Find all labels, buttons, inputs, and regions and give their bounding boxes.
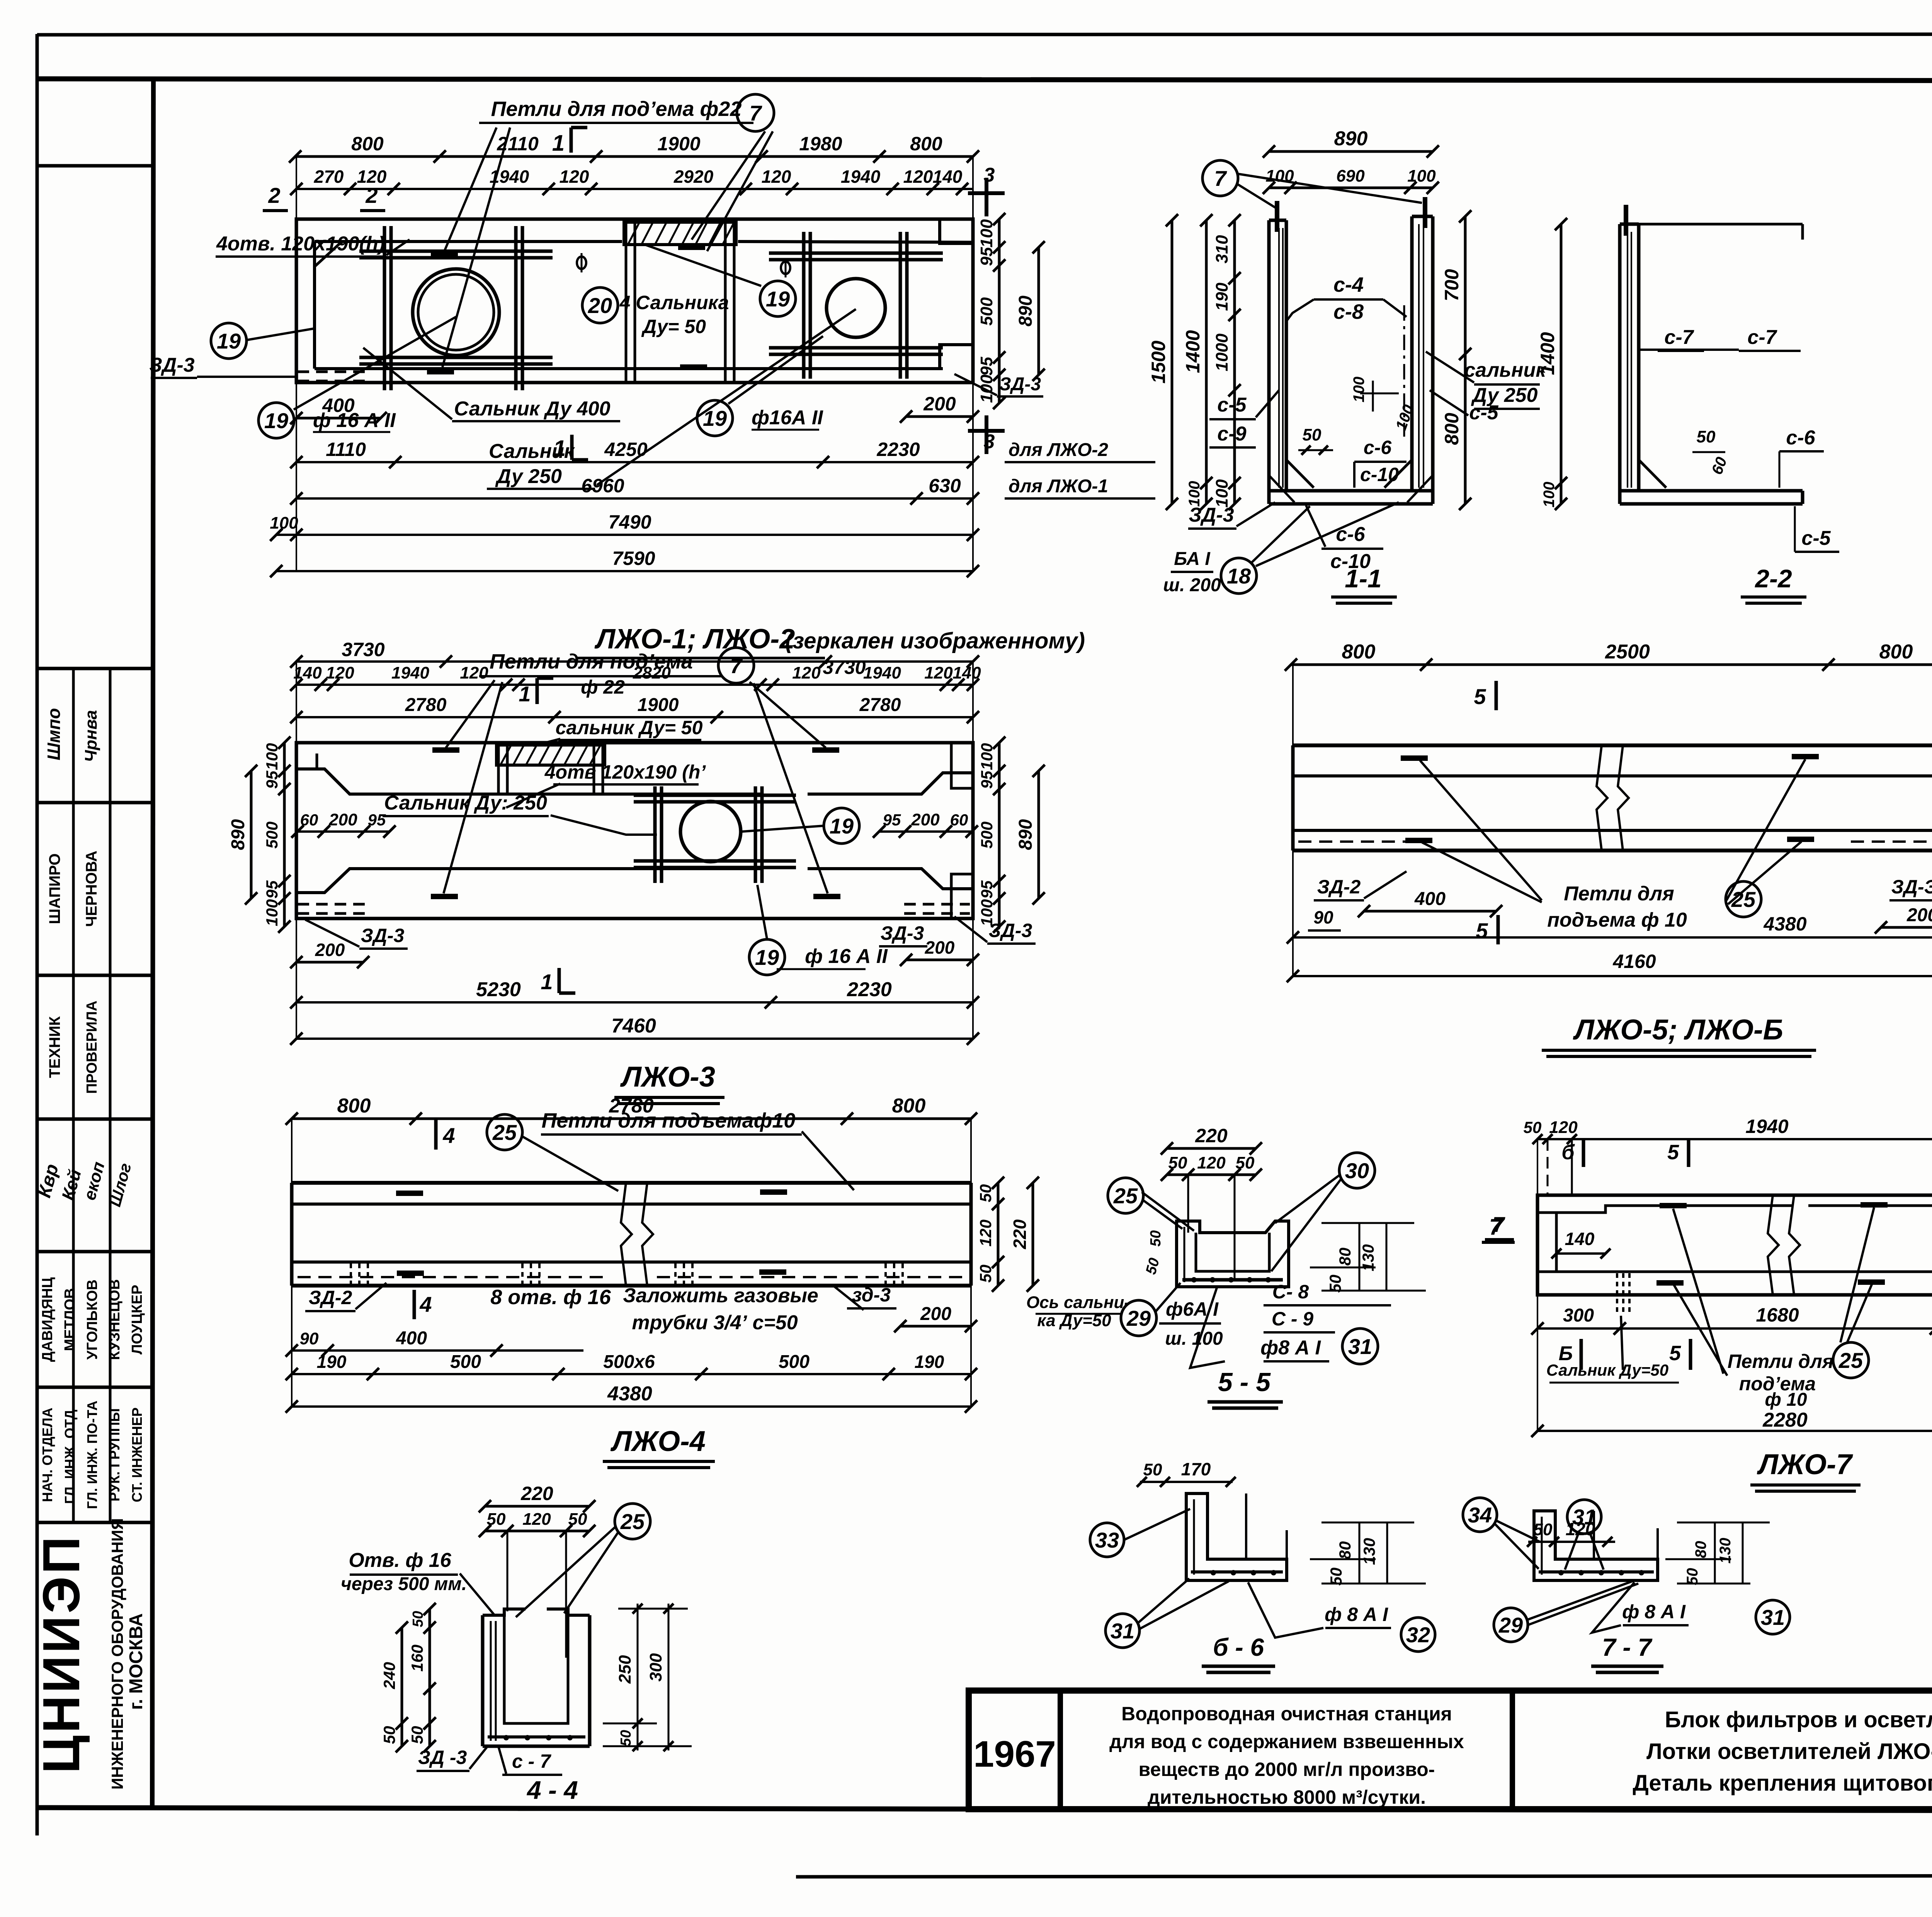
svg-text:200: 200: [911, 810, 940, 829]
svg-text:400: 400: [396, 1328, 427, 1349]
svg-text:31: 31: [1572, 1505, 1596, 1529]
lifting loops J: [1660, 1203, 1687, 1208]
svg-text:4 Сальника: 4 Сальника: [619, 292, 729, 313]
svg-text:19: 19: [830, 814, 854, 838]
svg-text:100: 100: [270, 514, 298, 532]
salnik dashes J: [1616, 1273, 1618, 1314]
plan LZHO-1/2 inner top edge: [315, 240, 622, 243]
svg-text:5: 5: [1669, 1342, 1681, 1365]
svg-text:500х6: 500х6: [603, 1352, 655, 1372]
svg-text:для вод с содержанием взвеш: для вод с содержанием взвешенных: [1109, 1731, 1464, 1752]
svg-text:ЗД-2: ЗД-2: [1317, 876, 1361, 898]
svg-text:50: 50: [1143, 1256, 1163, 1276]
svg-text:19: 19: [703, 406, 727, 430]
section 1-1 loop bars top: [1275, 201, 1279, 232]
left small row 60 200 95 LZHO-3: [298, 830, 390, 833]
svg-text:25: 25: [1838, 1348, 1863, 1373]
svg-text:сальник Ду= 50: сальник Ду= 50: [556, 717, 703, 738]
svg-text:4380: 4380: [1763, 913, 1806, 935]
svg-text:50: 50: [976, 1184, 995, 1203]
dim row E2 2780 1900 2780: [296, 716, 973, 718]
hole marks plan A: [577, 257, 586, 269]
callout 19 bottom left with f16AII: [259, 403, 294, 438]
svg-text:г. МОСКВА: г. МОСКВА: [126, 1613, 146, 1710]
section 5-5 callout 25: [1108, 1178, 1143, 1213]
plan LZHO-1/2 right step notch top: [940, 219, 973, 243]
svg-text:Лотки осветлителей ЛЖО-1÷ЛЖ: Лотки осветлителей ЛЖО-1÷ЛЖО-7: [1646, 1739, 1932, 1764]
svg-text:140: 140: [952, 663, 981, 682]
extra lifting loops plan A right: [678, 245, 705, 250]
title block outer: [969, 1691, 1932, 1809]
svg-text:800: 800: [337, 1095, 371, 1117]
svg-text:Шмпо: Шмпо: [44, 708, 64, 760]
svg-text:с-8: с-8: [1333, 300, 1364, 323]
dim 200 H right: [900, 1325, 971, 1328]
band dashed line H: [298, 1276, 603, 1278]
plan LZHO-1/2 inner bottom edge: [315, 367, 943, 370]
callout 19 bottom LZHO-3: [749, 939, 785, 975]
svg-text:19: 19: [264, 408, 288, 433]
svg-text:ГЛ. ИНЖ. ОТД.: ГЛ. ИНЖ. ОТД.: [62, 1406, 78, 1504]
section 1-1 right wall: [1410, 216, 1414, 491]
plan LZHO-3 ZD-3 dashed plates: [298, 903, 365, 906]
svg-text:Отв. ф 16: Отв. ф 16: [349, 1549, 451, 1572]
section 1-1 right dim 700 800: [1464, 216, 1467, 504]
svg-text:Деталь крепления щитового з: Деталь крепления щитового затвора.: [1633, 1771, 1932, 1796]
band LZHO-4 outline: [292, 1181, 971, 1185]
svg-text:1: 1: [541, 970, 553, 994]
svg-text:С - 9: С - 9: [1272, 1308, 1314, 1330]
svg-text:90: 90: [300, 1329, 319, 1348]
section 4-4 cavity: [504, 1615, 568, 1723]
svg-text:1967: 1967: [973, 1733, 1056, 1775]
svg-text:130: 130: [1717, 1538, 1734, 1564]
dim row E0 3730 3730: [296, 660, 973, 663]
svg-text:ЗД-2: ЗД-2: [309, 1287, 352, 1308]
dim row J top 50 120 1940 120 50: [1537, 1138, 1932, 1140]
callout 19 left: [211, 323, 247, 359]
svg-text:2230: 2230: [876, 439, 920, 460]
section 7-7 continuation lines: [1593, 1511, 1595, 1559]
svg-text:100: 100: [978, 743, 996, 770]
svg-text:25: 25: [492, 1120, 517, 1145]
band dashed ZD line: [1298, 840, 1414, 843]
section 6-6 continuation lines: [1245, 1493, 1247, 1559]
plan LZHO-3 body outline: [296, 743, 973, 919]
svg-text:6960: 6960: [581, 475, 624, 497]
svg-text:4 - 4: 4 - 4: [526, 1776, 578, 1804]
svg-text:25: 25: [620, 1509, 645, 1534]
svg-text:ЗД-3: ЗД-3: [989, 920, 1032, 941]
svg-text:С- 8: С- 8: [1272, 1281, 1309, 1303]
svg-text:екоп: екоп: [80, 1160, 108, 1202]
svg-text:через 500 мм.: через 500 мм.: [341, 1574, 467, 1594]
svg-text:1980: 1980: [799, 133, 842, 155]
svg-text:4: 4: [442, 1123, 455, 1148]
svg-text:2920: 2920: [673, 167, 714, 187]
svg-text:310: 310: [1213, 235, 1231, 264]
plan LZHO-3 right step notches: [951, 743, 973, 788]
band LZHO-5/6 outline: [1293, 743, 1932, 747]
svg-text:33: 33: [1095, 1528, 1119, 1552]
dim row H1 90 400: [292, 1349, 583, 1352]
band break marks H: [621, 1183, 632, 1286]
plan LZHO-7 inner rect: [1537, 1206, 1793, 1213]
hole marks H: [350, 1264, 352, 1285]
svg-text:200: 200: [925, 937, 955, 958]
svg-text:1000: 1000: [1213, 333, 1231, 371]
svg-text:1: 1: [552, 131, 565, 156]
svg-text:200: 200: [315, 940, 345, 960]
svg-text:с-5: с-5: [1217, 394, 1247, 416]
svg-text:500: 500: [977, 297, 996, 326]
svg-text:1680: 1680: [1756, 1304, 1799, 1326]
section 1-1 cavity chamfers: [1286, 460, 1314, 488]
dim row F top 800 2500 800: [1291, 663, 1932, 666]
svg-text:ЗД -3: ЗД -3: [418, 1747, 467, 1768]
svg-text:7: 7: [1492, 1212, 1505, 1237]
extension lines LZHO-3: [296, 662, 297, 743]
svg-text:МЕТЛОВ: МЕТЛОВ: [62, 1288, 78, 1351]
svg-text:ЦНИИЭП: ЦНИИЭП: [32, 1534, 90, 1773]
svg-text:630: 630: [929, 475, 961, 497]
section 7-7 callout 31 top: [1567, 1500, 1601, 1534]
svg-text:800: 800: [1879, 641, 1913, 663]
dim row H2 190 500 500x6 500 190: [292, 1373, 971, 1375]
svg-text:БА I: БА I: [1174, 549, 1211, 569]
svg-text:19: 19: [217, 329, 241, 353]
sheet outer border bottom: [796, 1875, 1932, 1877]
svg-text:100: 100: [977, 374, 996, 403]
svg-text:2780: 2780: [859, 695, 901, 715]
dim row 7460: [296, 1038, 973, 1040]
svg-text:400: 400: [1414, 889, 1446, 909]
svg-text:500: 500: [263, 822, 281, 849]
svg-text:с-5: с-5: [1801, 527, 1831, 549]
svg-text:ШАПИРО: ШАПИРО: [46, 853, 63, 924]
dim row A5 100 7490: [276, 534, 973, 536]
svg-text:ЛЖО-5; ЛЖО-Б: ЛЖО-5; ЛЖО-Б: [1573, 1014, 1783, 1046]
svg-text:РУК. ГРУППЫ: РУК. ГРУППЫ: [107, 1408, 122, 1501]
svg-text:1940: 1940: [841, 167, 881, 187]
svg-text:120: 120: [976, 1220, 995, 1247]
svg-text:ЛЖО-4: ЛЖО-4: [610, 1425, 706, 1457]
svg-text:Сальник Ду=50: Сальник Ду=50: [1546, 1361, 1668, 1379]
svg-text:1110: 1110: [326, 439, 366, 460]
svg-text:1900: 1900: [657, 133, 700, 155]
svg-text:50: 50: [1326, 1275, 1344, 1293]
svg-text:с - 7: с - 7: [512, 1750, 551, 1772]
svg-text:трубки 3/4ʼ с=50: трубки 3/4ʼ с=50: [632, 1311, 798, 1334]
svg-text:2: 2: [268, 183, 280, 208]
svg-text:веществ до 2000 мг/л произв: веществ до 2000 мг/л произво-: [1139, 1759, 1435, 1780]
svg-text:890: 890: [1015, 819, 1036, 850]
svg-text:4250: 4250: [604, 439, 647, 460]
svg-text:7: 7: [749, 101, 762, 125]
svg-text:100: 100: [263, 899, 281, 926]
svg-text:200: 200: [1906, 905, 1932, 925]
svg-text:5: 5: [1667, 1141, 1679, 1164]
svg-text:800: 800: [1441, 413, 1463, 445]
callout circle 7 top: [737, 94, 774, 131]
svg-text:ЧЕРНОВА: ЧЕРНОВА: [83, 850, 100, 927]
svg-text:95: 95: [977, 357, 996, 376]
callout 19 mid right: [760, 281, 796, 316]
section 4-4 callout 25: [615, 1504, 650, 1539]
plan LZHO-1/2 inner left edge: [313, 242, 316, 369]
section 5-5 right dims 80 130 50: [1321, 1222, 1414, 1224]
section 1-1 left dim 1500: [1171, 220, 1173, 504]
section 1-1 left chain 310 190 1000 100: [1233, 220, 1236, 504]
section 1-1 dim 100 690 100: [1269, 187, 1433, 189]
plan LZHO-7 break marks: [1768, 1195, 1779, 1295]
section 1-1 wall rebar lines: [1278, 228, 1280, 488]
svg-text:50: 50: [410, 1611, 426, 1627]
svg-text:220: 220: [1010, 1219, 1030, 1249]
callout 20: [582, 287, 618, 323]
svg-text:дительностью 8000 м³/сутки.: дительностью 8000 м³/сутки.: [1148, 1786, 1426, 1808]
svg-text:7: 7: [1214, 166, 1227, 191]
svg-text:КУЗНЕЦОВ: КУЗНЕЦОВ: [107, 1279, 123, 1360]
svg-text:100: 100: [1213, 479, 1231, 508]
svg-text:32: 32: [1406, 1623, 1430, 1647]
svg-text:Сальник Ду 400: Сальник Ду 400: [454, 398, 611, 420]
svg-text:Ось сальни-: Ось сальни-: [1026, 1293, 1130, 1312]
svg-text:160: 160: [408, 1645, 426, 1672]
svg-text:500: 500: [978, 822, 996, 849]
svg-text:с-5: с-5: [1469, 401, 1498, 424]
plan LZHO-1/2 right step notch bottom: [940, 345, 973, 369]
svg-text:34: 34: [1468, 1503, 1492, 1527]
svg-text:1500: 1500: [1148, 340, 1169, 383]
dim row H3 4380: [292, 1405, 971, 1408]
svg-text:б - 6: б - 6: [1213, 1633, 1264, 1661]
svg-text:Ду 250: Ду 250: [495, 465, 562, 488]
section 2-2 left dim 1400: [1560, 224, 1563, 504]
svg-text:140: 140: [933, 167, 963, 187]
svg-text:50: 50: [976, 1265, 995, 1283]
right vertical dim 890 plan A: [1037, 247, 1040, 375]
section 1-1 salnik axis dashed: [1403, 305, 1405, 437]
svg-text:Петли для: Петли для: [1728, 1351, 1834, 1372]
dim 400 left below: [296, 417, 381, 420]
svg-text:с-6: с-6: [1364, 437, 1392, 458]
svg-text:ЛЖО-3: ЛЖО-3: [620, 1061, 715, 1093]
section 7-7 callout 29: [1494, 1608, 1528, 1642]
svg-text:90: 90: [1313, 907, 1333, 927]
svg-text:50: 50: [1327, 1568, 1345, 1586]
svg-text:120: 120: [792, 663, 821, 682]
dim row 5230 2230: [296, 1001, 973, 1004]
section 6-6 L shape: [1186, 1493, 1287, 1580]
svg-text:50: 50: [1143, 1460, 1162, 1479]
svg-text:1940: 1940: [490, 167, 529, 187]
svg-text:300: 300: [646, 1653, 665, 1682]
svg-text:5 - 5: 5 - 5: [1218, 1368, 1271, 1397]
stamp strip right edge: [152, 79, 153, 1808]
svg-text:29: 29: [1498, 1613, 1523, 1637]
svg-text:140: 140: [293, 663, 322, 682]
plan LZHO-1/2 ZD-3 dashed plate bottom-left: [298, 371, 365, 373]
svg-text:7460: 7460: [611, 1015, 656, 1037]
svg-text:ДАВИДЯНЦ: ДАВИДЯНЦ: [39, 1277, 56, 1362]
dim row J3 2280: [1537, 1430, 1932, 1432]
section 6-6 right dims 80 130 50: [1321, 1522, 1414, 1524]
svg-text:СТ. ИНЖЕНЕР: СТ. ИНЖЕНЕР: [129, 1407, 145, 1502]
right vertical dims H: [997, 1183, 1000, 1286]
svg-text:25: 25: [1113, 1184, 1138, 1208]
dim row A3 1110 4250 2230: [296, 461, 973, 463]
svg-text:50: 50: [380, 1726, 398, 1744]
svg-text:20: 20: [588, 293, 612, 318]
svg-text:с-7: с-7: [1664, 326, 1694, 349]
svg-text:ф16А II: ф16А II: [752, 407, 823, 429]
svg-text:100: 100: [1407, 167, 1436, 185]
svg-text:Чрнва: Чрнва: [82, 710, 100, 762]
dim row A2 270-120-1940...140: [296, 188, 973, 190]
rebar cross around circle 2: [802, 232, 806, 379]
section 2-2 top edge line: [1639, 223, 1803, 226]
svg-text:80: 80: [1692, 1541, 1709, 1558]
svg-text:ЛОУЦКЕР: ЛОУЦКЕР: [129, 1285, 145, 1355]
svg-text:19: 19: [755, 945, 779, 970]
svg-text:50: 50: [1303, 425, 1321, 444]
section 5-5 inner rebar: [1184, 1227, 1185, 1282]
sheet outer border top: [37, 34, 1932, 35]
section 2-2 loop bar top: [1624, 205, 1628, 236]
section 7-7 right dims 50 80 130: [1677, 1522, 1770, 1524]
svg-text:7590: 7590: [612, 548, 655, 569]
svg-text:Ду= 50: Ду= 50: [641, 316, 706, 337]
svg-text:140: 140: [1565, 1229, 1595, 1249]
svg-text:800: 800: [1342, 641, 1376, 663]
svg-text:сальник: сальник: [1464, 359, 1547, 381]
svg-text:1400: 1400: [1182, 330, 1204, 373]
svg-text:ф 8 А I: ф 8 А I: [1622, 1601, 1686, 1623]
svg-text:120: 120: [762, 167, 791, 187]
section 7-7 inner rebar: [1541, 1517, 1543, 1575]
stamp strip sub-columns: [72, 668, 75, 1522]
svg-text:Заложить газовые: Заложить газовые: [623, 1284, 818, 1307]
section 7-7 L shape: [1534, 1511, 1658, 1580]
svg-text:НАЧ. ОТДЕЛА: НАЧ. ОТДЕЛА: [39, 1408, 55, 1502]
rebar cross around circle 1: [383, 226, 386, 390]
section 4-4 left dims: [429, 1609, 431, 1746]
svg-text:Сальник Ду: 250: Сальник Ду: 250: [384, 792, 547, 814]
section 2-2 cavity chamfer: [1639, 460, 1666, 488]
svg-text:1940: 1940: [1745, 1116, 1788, 1137]
svg-text:95: 95: [368, 811, 386, 829]
svg-text:5: 5: [1476, 919, 1488, 943]
svg-text:ГЛ. ИНЖ. ПО-ТА: ГЛ. ИНЖ. ПО-ТА: [84, 1401, 100, 1509]
dim row A4 6960 630: [296, 497, 973, 500]
svg-text:18: 18: [1227, 564, 1251, 588]
svg-text:29: 29: [1126, 1306, 1151, 1330]
section 6-6 callout 33: [1090, 1523, 1124, 1557]
svg-text:500: 500: [779, 1352, 810, 1372]
section 5-5 channel section: [1177, 1221, 1289, 1287]
svg-text:120: 120: [460, 663, 488, 682]
svg-text:250: 250: [616, 1655, 634, 1684]
svg-text:220: 220: [1195, 1125, 1228, 1146]
salnik assembly top LZHO-3: [497, 745, 605, 765]
svg-text:2: 2: [365, 183, 378, 208]
plan LZHO-3 inner top profile with end recesses: [296, 769, 763, 794]
svg-text:50: 50: [408, 1726, 426, 1744]
section 5-5 cavity: [1196, 1233, 1269, 1271]
svg-text:50: 50: [618, 1730, 634, 1746]
svg-text:3730: 3730: [342, 639, 384, 660]
section 5-5 callout 30: [1339, 1153, 1375, 1188]
dim row A6 7590: [276, 570, 973, 572]
svg-text:8 отв. ф 16: 8 отв. ф 16: [490, 1286, 611, 1309]
svg-text:Петли для: Петли для: [1564, 883, 1674, 905]
svg-text:50: 50: [1148, 1230, 1164, 1247]
lifting loop marks plan LZHO-1/2: [431, 252, 458, 258]
section 4-4 right dims: [637, 1604, 639, 1750]
svg-text:1940: 1940: [863, 663, 901, 682]
svg-text:200: 200: [328, 810, 357, 829]
right vertical dims plan A chain: [998, 219, 1001, 403]
svg-text:120: 120: [903, 167, 933, 187]
callout 19 right with f16AII: [697, 400, 733, 436]
svg-text:(зеркален изображенному): (зеркален изображенному): [785, 628, 1085, 653]
svg-text:с-10: с-10: [1360, 464, 1399, 485]
svg-text:для ЛЖО-1: для ЛЖО-1: [1009, 476, 1108, 497]
stamp strip divider rows: [37, 164, 153, 168]
section 1-1 left dim 1400: [1205, 220, 1208, 504]
title block divider after description: [1510, 1691, 1515, 1809]
section 4-4 inner rebar: [490, 1621, 492, 1741]
svg-text:4отв. 120х190(h): 4отв. 120х190(h): [216, 233, 385, 255]
left vertical dims LZHO-3: [283, 743, 286, 927]
svg-text:50: 50: [1236, 1153, 1255, 1172]
section 1-1 bottom slab: [1269, 489, 1433, 493]
svg-text:УГОЛЬКОВ: УГОЛЬКОВ: [84, 1279, 100, 1359]
svg-text:1940: 1940: [391, 663, 429, 682]
svg-text:170: 170: [1181, 1459, 1211, 1479]
svg-text:1400: 1400: [1537, 332, 1558, 375]
svg-text:120: 120: [560, 167, 589, 187]
svg-text:5230: 5230: [476, 978, 521, 1001]
svg-text:270: 270: [314, 167, 344, 187]
svg-text:130: 130: [1359, 1244, 1377, 1271]
svg-text:7 - 7: 7 - 7: [1602, 1633, 1653, 1661]
right small row 95 200 60 LZHO-3: [879, 830, 972, 833]
dim row E1: [296, 684, 973, 686]
svg-text:800: 800: [351, 133, 384, 155]
svg-text:2280: 2280: [1762, 1409, 1808, 1431]
svg-text:1-1: 1-1: [1345, 564, 1381, 593]
svg-text:1: 1: [553, 436, 566, 461]
svg-text:4: 4: [419, 1292, 432, 1317]
svg-text:890: 890: [228, 819, 248, 850]
band break marks: [1597, 745, 1607, 850]
svg-text:120: 120: [522, 1510, 551, 1529]
svg-text:50: 50: [1697, 427, 1716, 446]
svg-text:Петли для подʼема ф22: Петли для подʼема ф22: [491, 97, 742, 121]
svg-text:300: 300: [1563, 1305, 1594, 1326]
svg-text:200: 200: [920, 1304, 951, 1324]
section 4-4 dim 50 120 50: [485, 1530, 589, 1533]
svg-text:2780: 2780: [405, 695, 447, 715]
svg-text:60: 60: [950, 811, 968, 829]
svg-text:ПРОВЕРИЛА: ПРОВЕРИЛА: [84, 1000, 100, 1094]
svg-text:240: 240: [380, 1662, 398, 1689]
svg-text:100: 100: [263, 743, 281, 770]
svg-text:ТЕХНИК: ТЕХНИК: [46, 1016, 63, 1078]
section 2-2 wall: [1618, 224, 1622, 504]
